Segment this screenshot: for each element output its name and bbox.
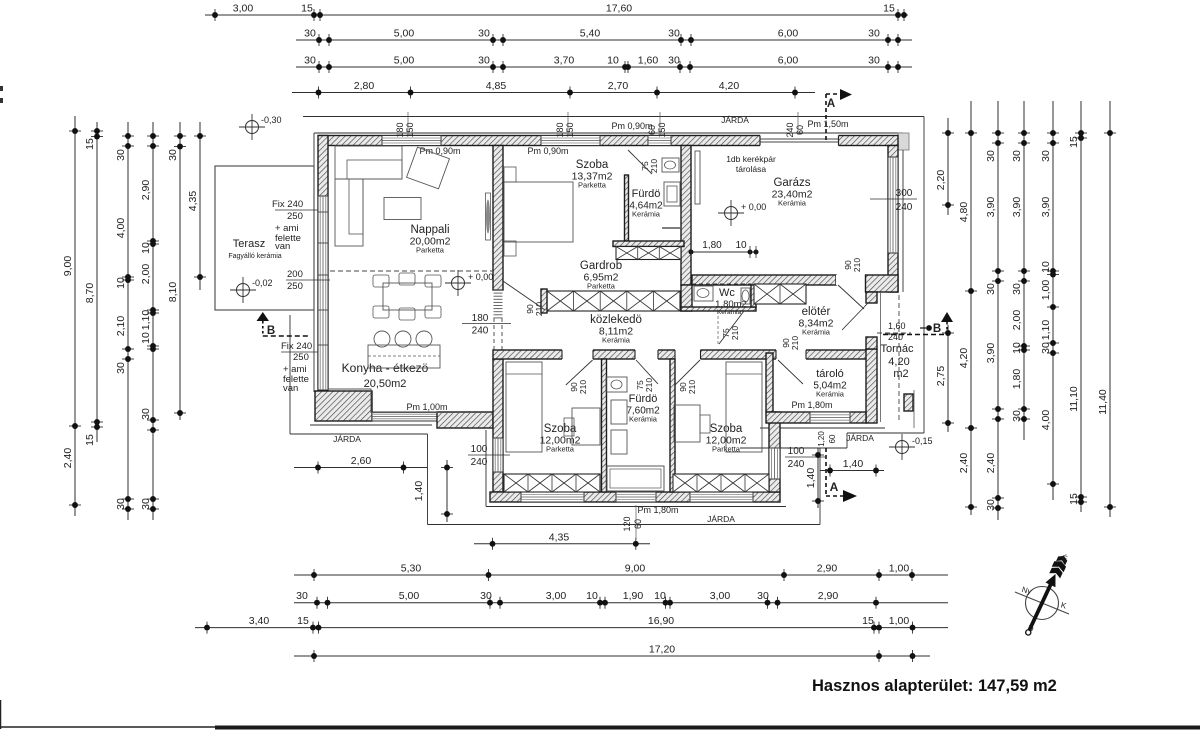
svg-text:30: 30 — [478, 55, 490, 67]
svg-text:Pm 1,00m: Pm 1,00m — [406, 402, 447, 412]
svg-text:30: 30 — [115, 149, 127, 161]
svg-text:Parketta: Parketta — [578, 181, 607, 190]
svg-text:8,10: 8,10 — [167, 282, 179, 303]
svg-text:2,80: 2,80 — [354, 80, 375, 92]
svg-text:elötér: elötér — [802, 306, 831, 318]
terasz — [215, 166, 314, 310]
svg-text:m2: m2 — [893, 368, 908, 380]
svg-text:Garázs: Garázs — [773, 177, 810, 189]
svg-text:Pm 1,80m: Pm 1,80m — [791, 400, 832, 410]
svg-text:15: 15 — [297, 615, 309, 627]
svg-text:5,40: 5,40 — [580, 28, 601, 40]
svg-text:30: 30 — [1040, 342, 1052, 354]
svg-text:30: 30 — [1011, 410, 1023, 422]
svg-text:150: 150 — [657, 122, 667, 137]
exterior and interior walls (hatched) — [319, 136, 898, 146]
right dimension columns — [947, 118, 949, 215]
svg-text:1,00: 1,00 — [889, 615, 910, 627]
svg-text:60: 60 — [795, 125, 805, 135]
svg-text:1,10: 1,10 — [1040, 320, 1052, 341]
svg-text:15: 15 — [883, 3, 895, 15]
svg-text:-0,02: -0,02 — [252, 278, 273, 288]
svg-text:30: 30 — [304, 28, 316, 40]
svg-text:100: 100 — [471, 444, 488, 455]
svg-text:1,20: 1,20 — [817, 431, 826, 447]
svg-text:2,60: 2,60 — [351, 455, 372, 467]
svg-text:1,40: 1,40 — [843, 458, 864, 470]
svg-text:60: 60 — [633, 519, 643, 529]
jarda sidewalk outline — [303, 116, 924, 118]
level marker -0.30 — [246, 121, 259, 134]
compass rose — [1015, 553, 1070, 637]
svg-text:100: 100 — [788, 446, 805, 457]
svg-text:Pm 1,80m: Pm 1,80m — [637, 505, 678, 515]
svg-text:Terasz: Terasz — [233, 238, 265, 250]
svg-text:10: 10 — [115, 277, 127, 289]
svg-text:3,90: 3,90 — [985, 197, 997, 218]
svg-text:tároló: tároló — [816, 368, 844, 380]
svg-text:2,00: 2,00 — [1011, 310, 1023, 331]
svg-text:3,00: 3,00 — [546, 590, 567, 602]
svg-text:6,00: 6,00 — [778, 28, 799, 40]
furniture fürdő4,64 — [662, 158, 679, 172]
svg-text:10: 10 — [1011, 342, 1023, 354]
svg-text:30: 30 — [1011, 150, 1023, 162]
svg-text:30: 30 — [296, 590, 308, 602]
svg-text:200: 200 — [287, 269, 303, 280]
svg-text:Fix 240: Fix 240 — [281, 341, 312, 352]
svg-text:2,00: 2,00 — [140, 264, 152, 285]
svg-text:15: 15 — [1068, 493, 1080, 505]
svg-text:9,00: 9,00 — [625, 563, 646, 575]
svg-text:15: 15 — [84, 138, 96, 150]
dashed helper lines — [330, 270, 493, 272]
svg-text:30: 30 — [115, 498, 127, 510]
svg-text:Nappali: Nappali — [411, 224, 450, 236]
door swings — [628, 150, 652, 174]
svg-text:17,20: 17,20 — [649, 644, 675, 656]
svg-text:Pm 0,90m: Pm 0,90m — [527, 146, 568, 156]
svg-text:30: 30 — [985, 283, 997, 295]
svg-text:JÁRDA: JÁRDA — [707, 514, 735, 524]
left dimension columns — [74, 116, 76, 516]
svg-text:1,40: 1,40 — [805, 468, 817, 489]
svg-text:10: 10 — [140, 332, 152, 344]
bottom frame bar — [0, 726, 215, 728]
svg-text:4,00: 4,00 — [115, 218, 127, 239]
svg-text:300: 300 — [896, 188, 913, 199]
svg-text:30: 30 — [478, 28, 490, 40]
section marker B left — [257, 312, 270, 321]
svg-text:30: 30 — [1011, 283, 1023, 295]
svg-text:240: 240 — [472, 326, 489, 337]
svg-text:Kerámia: Kerámia — [816, 390, 845, 399]
svg-text:15: 15 — [84, 434, 96, 446]
section marker A bottom — [825, 448, 827, 496]
svg-text:Hasznos alapterület: 147,59 m2: Hasznos alapterület: 147,59 m2 — [812, 677, 1057, 695]
svg-text:17,60: 17,60 — [606, 3, 632, 15]
svg-text:9,00: 9,00 — [62, 256, 74, 277]
svg-text:JÁRDA: JÁRDA — [846, 433, 874, 443]
svg-text:4,20: 4,20 — [888, 356, 909, 368]
svg-text:60: 60 — [828, 434, 837, 443]
svg-text:8,70: 8,70 — [84, 283, 96, 304]
svg-text:Pm 0,90m: Pm 0,90m — [611, 121, 652, 131]
svg-text:Parketta: Parketta — [416, 246, 445, 255]
svg-text:Szoba: Szoba — [576, 159, 609, 171]
svg-text:2,20: 2,20 — [935, 170, 947, 191]
svg-text:+ 0,00: + 0,00 — [468, 272, 493, 282]
svg-text:20,50m2: 20,50m2 — [364, 378, 407, 390]
bottom dimension rows — [474, 543, 650, 545]
svg-text:Fürdö: Fürdö — [632, 188, 661, 200]
svg-text:Pm 0,90m: Pm 0,90m — [419, 146, 460, 156]
svg-text:Wc: Wc — [719, 287, 735, 299]
garage bike rack — [695, 151, 700, 204]
svg-text:4,80: 4,80 — [958, 202, 970, 223]
svg-text:4,35: 4,35 — [187, 191, 199, 212]
svg-text:1,60: 1,60 — [638, 55, 659, 67]
svg-text:2,90: 2,90 — [140, 180, 152, 201]
section marker A top — [825, 94, 827, 140]
svg-text:30: 30 — [140, 408, 152, 420]
svg-text:150: 150 — [405, 122, 415, 137]
svg-text:30: 30 — [480, 590, 492, 602]
svg-text:2,10: 2,10 — [115, 316, 127, 337]
svg-text:Kerámia: Kerámia — [717, 309, 742, 316]
svg-text:150: 150 — [565, 122, 575, 137]
svg-text:3,70: 3,70 — [554, 55, 575, 67]
svg-text:180: 180 — [472, 313, 489, 324]
svg-text:Kerámia: Kerámia — [802, 328, 831, 337]
svg-text:4,85: 4,85 — [486, 80, 507, 92]
svg-text:30: 30 — [668, 28, 680, 40]
svg-text:11,10: 11,10 — [1068, 386, 1080, 412]
svg-text:2,40: 2,40 — [985, 453, 997, 474]
svg-text:1,60: 1,60 — [888, 321, 906, 331]
wardrobe x-strips — [616, 247, 681, 260]
bedroom2 furniture — [726, 362, 762, 452]
svg-text:A: A — [827, 98, 835, 110]
svg-text:Kerámia: Kerámia — [602, 336, 631, 345]
svg-text:-0,15: -0,15 — [912, 436, 933, 446]
svg-text:A: A — [830, 480, 839, 494]
svg-text:B: B — [267, 325, 275, 337]
svg-text:1,90: 1,90 — [623, 590, 644, 602]
svg-text:15: 15 — [862, 615, 874, 627]
svg-text:120: 120 — [622, 516, 632, 531]
svg-text:2,40: 2,40 — [958, 453, 970, 474]
svg-text:5,30: 5,30 — [401, 563, 422, 575]
svg-text:4,20: 4,20 — [719, 80, 740, 92]
svg-text:30: 30 — [115, 362, 127, 374]
svg-text:16,90: 16,90 — [648, 615, 674, 627]
plinth outline — [313, 133, 315, 166]
svg-text:4,20: 4,20 — [958, 348, 970, 369]
svg-text:2,90: 2,90 — [818, 590, 839, 602]
svg-text:1,40: 1,40 — [413, 481, 425, 502]
svg-text:11,40: 11,40 — [1097, 389, 1109, 415]
top dimension rows — [205, 14, 908, 16]
svg-text:5,00: 5,00 — [394, 55, 415, 67]
svg-text:3,90: 3,90 — [985, 343, 997, 364]
svg-text:250: 250 — [293, 352, 309, 363]
svg-text:1,00: 1,00 — [889, 563, 910, 575]
svg-text:közlekedö: közlekedö — [590, 314, 642, 326]
svg-text:240: 240 — [896, 202, 913, 213]
svg-text:5,00: 5,00 — [394, 28, 415, 40]
svg-text:30: 30 — [985, 499, 997, 511]
svg-text:10: 10 — [607, 55, 619, 67]
svg-text:10: 10 — [735, 240, 747, 251]
svg-text:240: 240 — [888, 332, 903, 342]
svg-text:180: 180 — [395, 122, 405, 137]
svg-text:6,00: 6,00 — [778, 55, 799, 67]
svg-text:Fagyálló kerámia: Fagyálló kerámia — [228, 253, 281, 260]
svg-text:3,00: 3,00 — [233, 3, 254, 15]
svg-text:Parketta: Parketta — [587, 282, 616, 291]
svg-text:1,80: 1,80 — [1011, 369, 1023, 390]
svg-text:210: 210 — [790, 336, 800, 350]
svg-text:Pm 1,50m: Pm 1,50m — [807, 119, 848, 129]
svg-text:30: 30 — [140, 498, 152, 510]
svg-text:30: 30 — [868, 55, 880, 67]
svg-text:30: 30 — [304, 55, 316, 67]
svg-text:Fix 240: Fix 240 — [272, 199, 303, 210]
svg-text:1,10: 1,10 — [140, 310, 152, 331]
svg-text:Fürdö: Fürdö — [629, 393, 658, 405]
svg-text:-0,30: -0,30 — [261, 115, 282, 125]
svg-text:10: 10 — [654, 590, 666, 602]
svg-text:210: 210 — [687, 380, 697, 394]
svg-text:3,40: 3,40 — [249, 615, 270, 627]
svg-text:240: 240 — [788, 459, 805, 470]
svg-text:Kerámia: Kerámia — [778, 199, 807, 208]
svg-text:250: 250 — [287, 281, 303, 292]
svg-text:2,70: 2,70 — [608, 80, 629, 92]
svg-text:B: B — [933, 323, 941, 335]
svg-text:30: 30 — [668, 55, 680, 67]
svg-text:15: 15 — [301, 3, 313, 15]
svg-text:Tornác: Tornác — [880, 343, 914, 355]
svg-text:1db kerékpár: 1db kerékpár — [726, 154, 776, 164]
svg-text:2,40: 2,40 — [62, 448, 74, 469]
svg-text:2,90: 2,90 — [817, 563, 838, 575]
bathroom 7,60 fixtures — [606, 377, 627, 392]
svg-text:JÁRDA: JÁRDA — [721, 115, 749, 125]
svg-text:240: 240 — [471, 457, 488, 468]
svg-text:10: 10 — [140, 242, 152, 254]
svg-text:240: 240 — [785, 122, 795, 137]
svg-text:30: 30 — [167, 149, 179, 161]
svg-text:10: 10 — [586, 590, 598, 602]
svg-text:3,90: 3,90 — [1040, 197, 1052, 218]
svg-text:van: van — [283, 383, 298, 394]
svg-text:4,00: 4,00 — [1040, 410, 1052, 431]
svg-text:Kerámia: Kerámia — [629, 415, 658, 424]
svg-text:+ 0,00: + 0,00 — [741, 202, 766, 212]
svg-text:Gardrob: Gardrob — [580, 260, 622, 272]
svg-text:1,80: 1,80 — [702, 240, 722, 251]
svg-text:210: 210 — [578, 380, 588, 394]
svg-text:van: van — [275, 241, 290, 252]
svg-text:180: 180 — [555, 122, 565, 137]
svg-text:210: 210 — [649, 159, 659, 173]
furniture szoba13 — [504, 182, 573, 242]
svg-text:4,35: 4,35 — [549, 531, 570, 543]
svg-text:JÁRDA: JÁRDA — [333, 434, 361, 444]
svg-text:15: 15 — [1068, 136, 1080, 148]
svg-text:3,00: 3,00 — [710, 590, 731, 602]
svg-text:2,75: 2,75 — [935, 366, 947, 387]
svg-text:1,00: 1,00 — [1040, 280, 1052, 301]
svg-text:210: 210 — [644, 378, 654, 392]
svg-text:3,90: 3,90 — [1011, 197, 1023, 218]
svg-text:30: 30 — [868, 28, 880, 40]
room outlines — [328, 389, 490, 413]
wc fixtures — [694, 286, 713, 301]
svg-text:tárolása: tárolása — [736, 164, 767, 174]
svg-text:30: 30 — [985, 150, 997, 162]
svg-text:Kerámia: Kerámia — [632, 210, 661, 219]
svg-text:10: 10 — [1040, 261, 1052, 273]
section marker B right — [941, 312, 953, 322]
svg-text:210: 210 — [852, 258, 862, 272]
svg-text:Parketta: Parketta — [546, 445, 575, 454]
svg-text:250: 250 — [287, 211, 303, 222]
svg-text:5,00: 5,00 — [399, 590, 420, 602]
bedroom1 furniture — [506, 362, 542, 452]
svg-text:30: 30 — [757, 590, 769, 602]
furniture nappali — [335, 146, 402, 179]
svg-text:30: 30 — [1040, 150, 1052, 162]
